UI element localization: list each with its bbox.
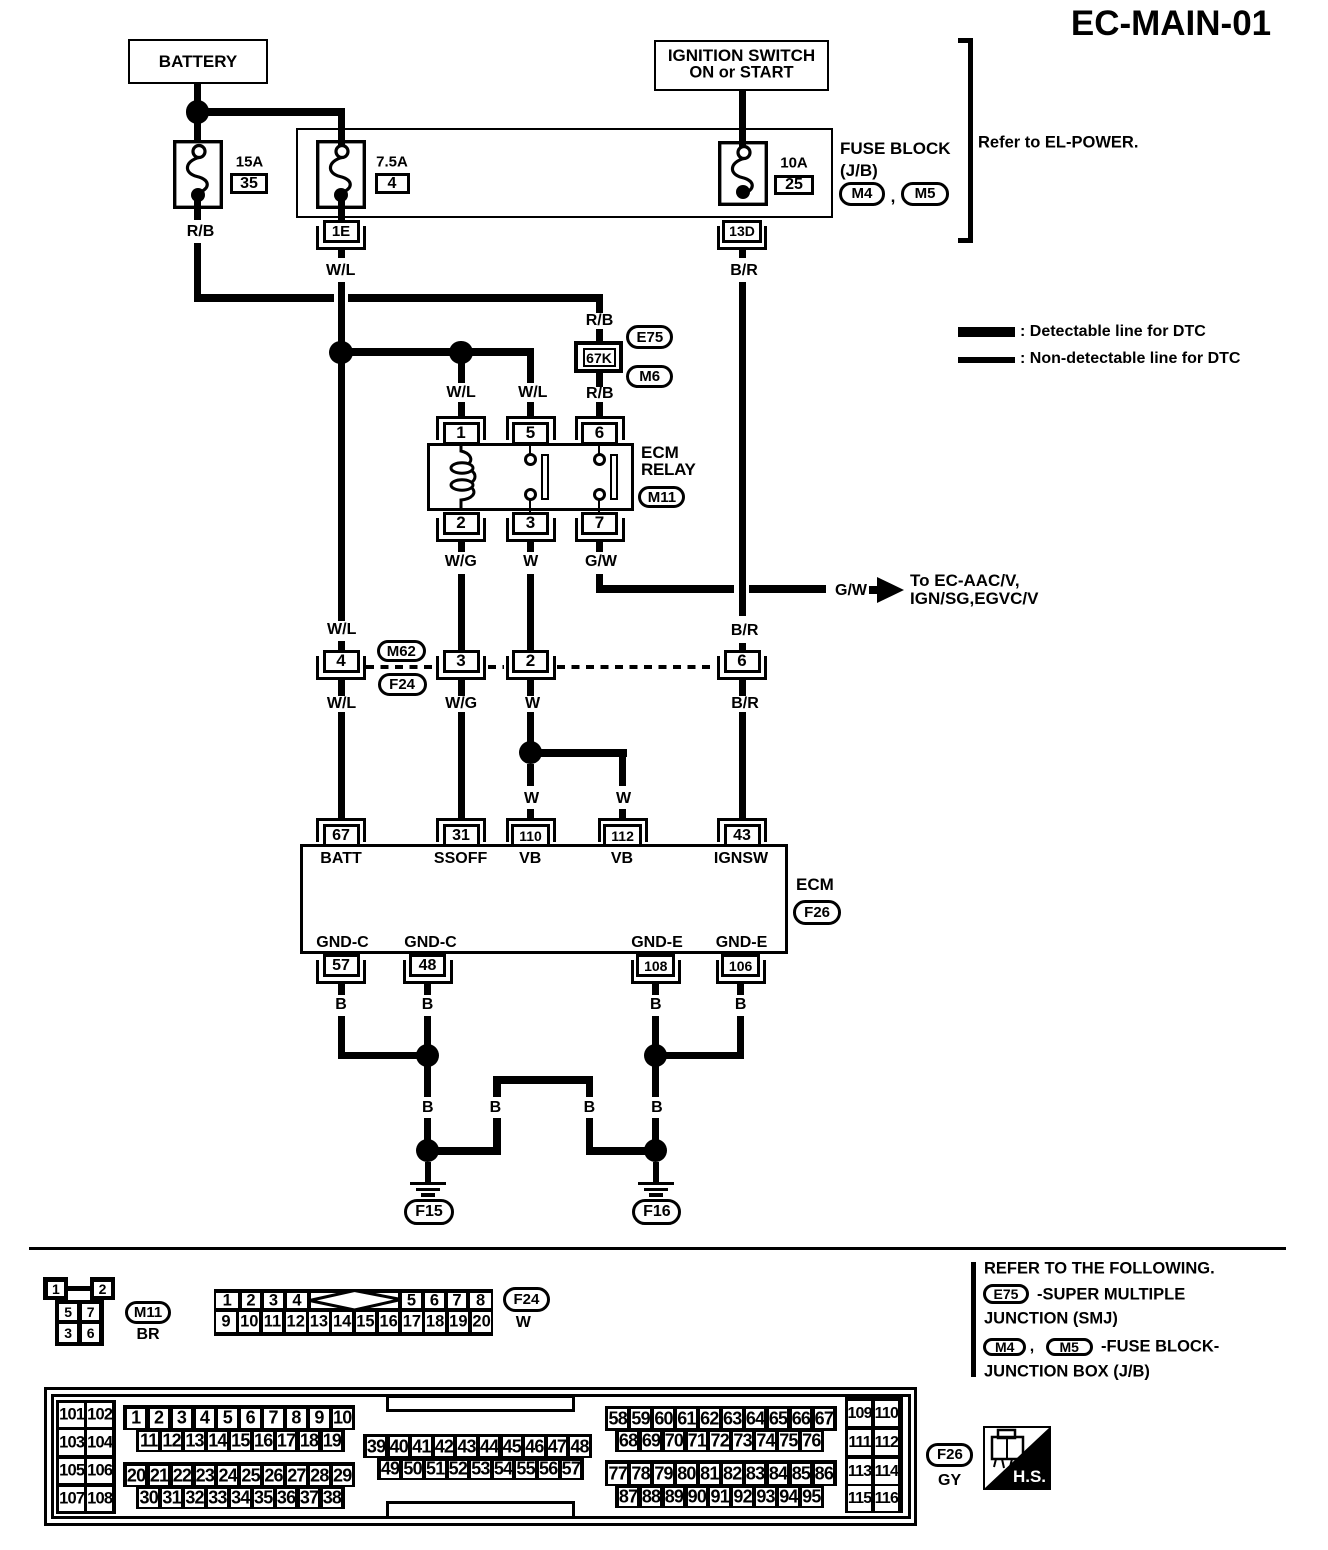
svg-text:H.S.: H.S.	[1013, 1467, 1046, 1486]
